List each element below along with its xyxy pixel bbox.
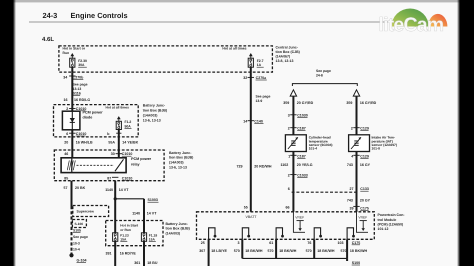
svg-text:Powertrain Con-: Powertrain Con- [378,213,406,217]
pcm pin 66 [286,205,290,209]
svg-text:85: 85 [64,176,68,180]
wire E to F1.18 [143,199,145,233]
svg-text:16 GY: 16 GY [360,163,371,167]
dashed connector line C133 [292,191,357,193]
connector C187 pin 2 [288,127,306,131]
svg-text:32: 32 [243,76,247,80]
connector C129 pin 2 [351,127,369,131]
svg-text:VREF: VREF [358,216,367,220]
battery junction box (fuses) dashed [106,221,163,246]
svg-text:trol Module: trol Module [378,218,397,222]
svg-text:18 LB/YE: 18 LB/YE [211,249,227,253]
connector C270b [63,75,84,79]
svg-text:1140: 1140 [105,188,113,192]
powertrain control module PCM (dashed box) [197,212,375,240]
svg-text:101-4: 101-4 [309,147,318,151]
svg-text:570: 570 [234,249,240,253]
svg-text:Hot at all times: Hot at all times [222,47,246,51]
svg-text:Hot at all times: Hot at all times [106,105,130,109]
supercrew dashed box [73,206,109,217]
svg-text:16 RD/YE: 16 RD/YE [120,252,137,256]
svg-text:14: 14 [243,119,247,123]
svg-text:F1.2: F1.2 [125,120,132,124]
svg-text:C129: C129 [360,155,369,159]
svg-text:391: 391 [106,252,112,256]
wire G to CHT sensor [292,96,294,135]
svg-text:20 RD/WH: 20 RD/WH [254,165,272,169]
svg-text:55: 55 [244,206,248,210]
wire label 20 RD/WH [237,165,272,169]
label hot in start or run (fuses) [120,223,139,231]
svg-text:tion Box (CJB): tion Box (CJB) [276,50,300,54]
svg-text:27: 27 [350,187,354,191]
central junction box feed (dashed) [59,46,273,72]
svg-text:359: 359 [283,101,289,105]
svg-text:C1010: C1010 [76,132,87,136]
svg-text:25: 25 [201,241,205,245]
wire label 16 RD/LG [64,98,91,102]
svg-text:(14A067): (14A067) [276,54,291,58]
section label 4.6L [42,36,54,43]
svg-text:C187: C187 [297,127,306,131]
svg-text:(14A003): (14A003) [143,114,158,118]
svg-text:PCM power: PCM power [83,110,104,114]
svg-text:20 YE/LG: 20 YE/LG [297,163,313,167]
label central junction box [276,45,300,63]
svg-text:14 VT: 14 VT [147,211,157,215]
svg-text:relay: relay [131,163,141,167]
svg-text:61: 61 [269,241,273,245]
svg-text:14 VT: 14 VT [119,188,129,192]
wire fuse F2.30 stub [71,67,73,72]
wire H sensor to PCM [356,152,358,212]
svg-text:101-8: 101-8 [372,147,381,151]
svg-text:10-4: 10-4 [73,247,80,251]
label pcm power relay [131,157,152,166]
fuse F2.7 [248,53,264,67]
svg-text:or Run: or Run [120,228,131,232]
svg-text:S-106: S-106 [75,222,84,226]
svg-text:See page: See page [73,83,88,87]
intake air temp sensor [349,135,370,152]
svg-text:87: 87 [107,176,111,180]
svg-text:Hot in Start: Hot in Start [120,223,139,227]
relay pin 30 connector C1010 [111,152,133,156]
svg-text:2: 2 [351,127,353,131]
note see page 10-3 10-4 [73,235,88,251]
svg-text:1: 1 [288,155,290,159]
svg-text:VREF: VREF [295,216,304,220]
svg-text:30A: 30A [78,63,85,67]
wire label 20 GY [347,199,371,203]
svg-text:2: 2 [288,127,290,131]
wire label 16 RD/YE [106,252,137,256]
svg-text:20 GY: 20 GY [360,199,371,203]
svg-text:C1030: C1030 [297,114,308,118]
svg-text:6: 6 [66,132,68,136]
relay pin 46 [64,152,68,156]
svg-text:Central Junc-: Central Junc- [276,45,299,49]
fuse F1.23 [113,233,129,242]
label CHT sensor [309,136,333,151]
svg-text:18 BU: 18 BU [147,261,158,265]
wire F1.18 output [143,241,145,266]
fuse F1.2 pin b [107,132,121,136]
svg-text:4.6L: 4.6L [42,36,54,43]
pcm driver pin 61 [276,228,284,240]
wire B F1.2 to relay [118,130,120,158]
svg-text:See page: See page [256,95,271,99]
pcm power relay K1 [61,158,126,173]
svg-text:2: 2 [288,174,290,178]
svg-text:tion Box (BJB): tion Box (BJB) [143,109,167,113]
svg-text:C187: C187 [297,155,306,159]
svg-text:S116: S116 [73,91,81,95]
label IAT sensor [372,136,397,151]
ground G104 [69,253,86,262]
pin 6 label [288,187,290,191]
svg-text:C270a: C270a [256,76,268,80]
svg-text:3: 3 [238,241,240,245]
svg-text:4: 4 [351,155,353,159]
note see page 24-8 [316,69,331,78]
pcm driver pin 3 [242,228,250,240]
pcm pin 25 wire [199,239,227,266]
svg-text:34: 34 [63,75,67,79]
fuse F1.18 [141,233,157,242]
svg-text:15A: 15A [120,238,127,242]
relay pin 87 connector C1010 [107,176,132,180]
pcm power diode D1 [62,111,80,130]
wire label 20 GY/RD [283,101,313,105]
svg-text:diode: diode [83,115,93,119]
pcm driver pin 103 [347,228,355,240]
pcm internal VREF 2 [357,212,369,233]
svg-text:39: 39 [350,207,354,211]
label hot at all times (top right) [222,47,246,51]
splice S105 [73,228,81,232]
svg-text:13-9: 13-9 [256,99,263,103]
svg-text:20 BK: 20 BK [75,186,86,190]
pcm pin 61 wire [268,239,297,258]
wire F from F2.7 to PCM [250,72,252,212]
svg-text:46: 46 [64,152,68,156]
svg-text:Battery Junc-: Battery Junc- [169,151,192,155]
svg-text:C1033: C1033 [297,174,308,178]
svg-text:729: 729 [237,165,243,169]
svg-text:16 GY/RD: 16 GY/RD [360,101,377,105]
wire G arrow [290,90,296,96]
pcm pin 3 wire [234,239,263,258]
svg-text:Engine Controls: Engine Controls [71,11,128,20]
svg-text:361: 361 [134,261,140,265]
svg-text:307: 307 [199,249,205,253]
wire label 16 GY [347,163,371,167]
svg-text:55A: 55A [108,141,115,145]
svg-text:1A: 1A [257,63,262,67]
svg-text:VBATT: VBATT [246,215,258,219]
svg-text:C129: C129 [360,127,369,131]
svg-text:1102: 1102 [281,163,289,167]
svg-text:743: 743 [347,163,353,167]
svg-text:Battery Junc-: Battery Junc- [143,104,166,108]
svg-text:S1003: S1003 [148,198,158,202]
svg-text:20 GY/RD: 20 GY/RD [297,101,314,105]
svg-text:24-8: 24-8 [316,73,323,77]
battery junction box (relay) dashed [54,150,164,181]
svg-text:Supercrew: Supercrew [77,209,95,213]
label hot in start or run [63,47,86,55]
svg-text:76: 76 [307,241,311,245]
svg-text:S105: S105 [73,228,81,232]
svg-text:101-12: 101-12 [378,227,389,231]
svg-text:16: 16 [64,98,68,102]
wire label 16 GY/RD [346,101,376,105]
splice S1003 junction [114,197,159,202]
svg-text:570: 570 [268,249,274,253]
connector C1030 [288,114,308,118]
wire H arrow [353,90,359,96]
label battery junction box (relay) [169,151,193,169]
svg-text:C1010: C1010 [122,152,133,156]
wire H to IAT sensor [356,96,358,135]
svg-text:G-104: G-104 [77,258,87,262]
svg-text:C140: C140 [254,119,263,123]
svg-text:C1010: C1010 [122,176,133,180]
connector C1010 pin 6 [66,132,86,136]
svg-text:tion Box (BJB): tion Box (BJB) [169,156,193,160]
bracket line [292,84,357,86]
svg-text:24-3: 24-3 [43,11,58,20]
pcm pin 103 wire [338,239,368,258]
connector C133 pin 27 [350,187,369,191]
svg-text:18 BK/WH: 18 BK/WH [317,249,335,253]
connector C1010 pin 2 [66,107,86,111]
cylinder head temp sensor [285,135,306,152]
connector C1033 [288,174,308,178]
svg-text:liteCam: liteCam [379,14,444,36]
svg-text:570: 570 [341,249,347,253]
svg-text:(14A003): (14A003) [166,231,181,235]
wire A from F2.30 to diode box [71,72,73,111]
pcm driver pin 76 [314,228,322,240]
label hot at all times (bjb) [106,105,130,109]
connector C140 [243,119,263,123]
svg-text:(14A003): (14A003) [169,161,184,165]
svg-text:C175: C175 [352,241,361,245]
svg-text:743: 743 [347,199,353,203]
splice S116 [73,91,81,95]
wire F1.23 output [114,241,116,266]
wire G sensor to PCM [292,152,294,212]
splice box S-106 [72,220,86,228]
svg-text:Battery Junc-: Battery Junc- [166,222,189,226]
svg-text:20: 20 [64,141,68,145]
svg-text:(PCM) (12A650): (PCM) (12A650) [378,222,404,226]
label battery junction box (diode) [143,104,167,123]
svg-text:1140: 1140 [132,211,140,215]
fuse F1.2 [116,116,131,129]
svg-text:18 BK/WH: 18 BK/WH [245,249,263,253]
wire label 18 BU [134,261,158,265]
svg-text:2: 2 [66,107,68,111]
wire label 14 VT (87) [105,188,129,192]
note see page 13-13 [73,83,88,91]
note see page 13-9 [256,95,271,104]
svg-text:50A: 50A [125,125,132,129]
label battery junction box (fuses) [166,222,190,235]
svg-text:14 YE/BK: 14 YE/BK [122,141,138,145]
pcm pin 55 [244,206,248,210]
svg-text:See page: See page [73,235,88,239]
wire label 14 YE/BK [108,141,138,145]
svg-text:15A: 15A [149,238,156,242]
battery junction box (diode) dashed [54,105,139,137]
connector C175 pin 39 [350,206,369,210]
svg-text:3: 3 [288,114,290,118]
label powertrain control module [378,213,406,231]
svg-text:103: 103 [338,241,344,245]
svg-text:359: 359 [346,101,352,105]
svg-text:C133: C133 [360,187,369,191]
svg-text:570: 570 [306,249,312,253]
pcm pin 76 wire [306,239,335,258]
svg-text:18 BK/WH: 18 BK/WH [350,249,368,253]
header title 24-3 Engine Controls [29,11,405,22]
svg-text:10-3: 10-3 [73,241,80,245]
label pcm power diode [83,110,104,119]
svg-text:13-6, 13-13: 13-6, 13-13 [143,119,161,123]
splice S100 [242,258,360,265]
connector C187 pin 1 [288,155,306,159]
svg-text:C175: C175 [360,207,369,211]
relay pin 85 [64,176,68,180]
wire label 20 YE/LG [281,163,313,167]
svg-text:Run: Run [63,51,70,55]
connector C270a [243,76,267,80]
svg-text:16 WH/LB: 16 WH/LB [76,141,93,145]
svg-text:16 RD/LG: 16 RD/LG [74,98,90,102]
svg-text:tion Box (BJB): tion Box (BJB) [166,227,190,231]
svg-text:57: 57 [64,186,68,190]
wire label 20 BK [64,186,86,190]
wire A diode to relay [71,130,73,158]
wire label 16 WH/LB [64,141,93,145]
svg-text:13-8, 13-13: 13-8, 13-13 [276,59,294,63]
wire C relay 85 to ground [71,181,73,255]
fuse F2.30 [70,53,87,67]
svg-text:S100: S100 [352,261,360,265]
svg-text:PCM power: PCM power [131,157,152,161]
label VBATT [246,215,258,219]
svg-text:C270b: C270b [73,75,85,79]
svg-text:66: 66 [286,205,290,209]
wire D relay 87 down [114,181,116,233]
svg-text:30: 30 [111,152,115,156]
connector C129 pin 4 [351,155,369,159]
pcm internal VREF 1 [293,212,305,233]
pcm driver pin 25 [209,228,217,240]
svg-text:6: 6 [288,187,290,191]
liteCam watermark [379,8,448,36]
svg-text:18 BK/WH: 18 BK/WH [279,249,297,253]
wire label 14 VT (S1003) [132,211,157,215]
svg-text:See page: See page [316,69,331,73]
wire fuse F2.7 stub [250,67,252,72]
svg-text:13-6, 13-13: 13-6, 13-13 [169,165,187,169]
